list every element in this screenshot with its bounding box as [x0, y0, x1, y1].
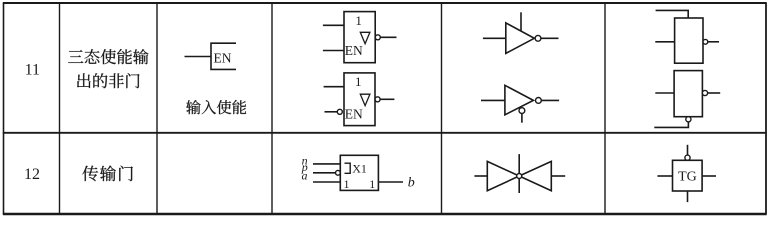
wire (enable, L-shaped) — [654, 122, 688, 128]
body — [340, 155, 378, 190]
wire (data input) — [655, 92, 674, 94]
inversion bubble (output) — [702, 90, 707, 95]
tri-state output qualifier (triangle) — [360, 32, 370, 43]
right triangle — [519, 161, 551, 190]
body — [674, 71, 702, 117]
body — [344, 73, 375, 126]
wire (control complement, bottom) — [687, 191, 689, 202]
svg-text:b: b — [408, 176, 415, 191]
tri-state inverter (rectangular form, enable on top) — [655, 10, 719, 63]
wire (enable input) — [185, 56, 212, 58]
wire (right terminal) — [551, 175, 565, 177]
inversion bubble (output) — [536, 98, 542, 104]
left triangle — [487, 161, 519, 190]
body (triangle) — [505, 85, 534, 115]
inversion bubble — [535, 35, 541, 41]
wire (data input) — [483, 37, 506, 39]
wire (left terminal) — [657, 175, 672, 177]
svg-text:a: a — [302, 169, 308, 183]
svg-text:1: 1 — [355, 74, 362, 89]
body — [673, 160, 703, 191]
wire (output) — [380, 36, 396, 38]
tri-state inverter U2 (IEC form, EN active-low) — [324, 73, 395, 126]
wire (data input) — [481, 99, 505, 101]
body — [344, 12, 375, 63]
wire (data input) — [323, 24, 344, 26]
svg-text:EN: EN — [214, 50, 232, 65]
caption 输入使能 — [186, 100, 246, 114]
wire (control, vertical) — [518, 154, 520, 193]
wire (enable, from bottom) — [521, 114, 523, 123]
svg-text:1: 1 — [369, 177, 375, 191]
inversion bubble (output) — [375, 97, 380, 102]
inversion bubble — [375, 35, 380, 40]
svg-text:1: 1 — [355, 13, 362, 28]
wire (input n) — [313, 163, 340, 165]
wire (output) — [380, 98, 394, 100]
symbol outline (open box) — [211, 43, 236, 69]
row 11 name text 三态使能输出的非门 — [68, 49, 148, 88]
inversion bubble — [703, 39, 708, 44]
wire (left terminal) — [474, 175, 487, 177]
wire (input p) — [313, 172, 336, 174]
transmission gate (two opposing triangles) — [474, 154, 565, 193]
control bubble — [517, 174, 522, 179]
wire (output) — [541, 99, 559, 101]
tri-state output qualifier (triangle) — [360, 94, 370, 105]
wire (enable input) — [323, 50, 344, 52]
inversion bubble (enable) — [337, 109, 342, 114]
wire (data input) — [324, 86, 344, 88]
svg-text:EN: EN — [345, 107, 363, 122]
wire (output) — [541, 37, 559, 39]
tri-state inverter (distinctive shape, active-low enable on bottom) — [481, 85, 559, 122]
wire (output) — [378, 181, 403, 183]
wire (right terminal) — [702, 175, 716, 177]
inversion bubble (enable) — [519, 108, 525, 114]
inversion bubble (control) — [685, 155, 690, 160]
transmission-gate qualifier (bracket) — [345, 163, 351, 173]
wire (output) — [708, 92, 721, 94]
body — [675, 18, 703, 63]
row 12 name text 传输门 — [82, 166, 132, 182]
wire (control, top) — [687, 145, 689, 155]
body (triangle) — [506, 23, 535, 54]
svg-text:EN: EN — [345, 43, 363, 58]
svg-text:11: 11 — [25, 62, 40, 79]
wire (enable, L-shaped) — [656, 10, 689, 18]
transmission gate X1 (IEC form) — [301, 153, 415, 190]
wire (enable, from top) — [520, 12, 522, 31]
wire (enable input) — [325, 111, 338, 113]
tri-state inverter U1 (IEC form, EN active-high) — [323, 12, 397, 63]
tri-state inverter (rectangular form, active-low enable on bottom) — [654, 71, 720, 128]
svg-text:X1: X1 — [352, 162, 367, 176]
inversion bubble (enable) — [686, 117, 691, 122]
tri-state inverter (distinctive shape, enable on top) — [483, 12, 559, 53]
svg-text:12: 12 — [24, 166, 40, 183]
inversion bubble (p input) — [336, 170, 341, 175]
svg-text:1: 1 — [344, 177, 350, 191]
transmission gate TG (box form) — [657, 145, 716, 202]
wire (data input) — [655, 41, 674, 43]
enable input qualifying symbol EN — [185, 43, 237, 69]
wire (input a) — [313, 181, 340, 183]
svg-text:TG: TG — [678, 170, 697, 185]
wire (output) — [708, 41, 719, 43]
